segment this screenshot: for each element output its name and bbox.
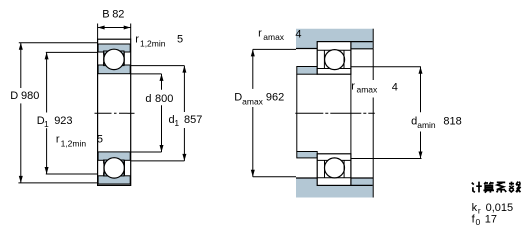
d extension line top [131,73,162,75]
d arrow up [160,74,164,81]
shaft left face [296,74,298,151]
d arrow down [160,145,164,152]
shaft right face [372,49,374,80]
svg-text:5: 5 [97,134,103,146]
bearing outline rect [98,39,131,185]
Damax dimension line [252,49,254,89]
inner ring top band (blue) [98,63,130,74]
D arrow up [19,43,23,50]
inner ring line bottom [317,159,351,161]
svg-text:980: 980 [21,90,39,102]
svg-text:4: 4 [295,28,301,40]
shaft shoulder strip bottom (blue) [297,152,317,158]
svg-text:4: 4 [392,81,398,93]
glyph shu [509,182,521,193]
damin extension bottom [351,158,422,160]
D extension line bottom [18,182,97,184]
ball bottom right drawing [325,158,345,178]
race shoulder ticks top [103,52,105,65]
inner ring outer edge line top [317,68,351,70]
damin extension top [351,66,421,68]
ticks top right drawing [323,50,325,68]
centerline right drawing [295,112,375,114]
Damax extension bottom [253,176,296,178]
d1 extension line bottom [131,160,185,162]
outer ring bottom band (blue) [98,173,130,184]
bearing top section rect [317,42,351,75]
D1 dimension line [46,52,48,112]
glyph suan [483,182,494,193]
D extension line top [19,42,98,44]
bearing top edge extended right [351,41,373,43]
Damax extension top / ra leader [253,48,296,50]
svg-text:D: D [10,90,18,102]
outer ring line bottom [317,177,351,179]
svg-text:800: 800 [155,93,173,105]
damin dimension line [420,67,422,113]
glyph xi [497,182,507,192]
B dimension line [98,27,131,29]
svg-text:818: 818 [443,116,461,128]
d extension line bottom [131,151,162,153]
ball bottom [104,158,124,178]
svg-text:0,015: 0,015 [486,202,514,214]
damin arrow up [419,67,423,74]
D1 extension line top [46,51,98,53]
bearing bottom section rect [317,154,351,186]
svg-text:B: B [102,9,109,21]
D1 arrow up [45,52,49,59]
ball top right drawing [325,50,345,70]
centerline left drawing [95,112,135,114]
Damax arrow up [251,49,255,56]
svg-text:5: 5 [177,34,183,46]
B extension lines [97,24,99,40]
svg-text:82: 82 [112,9,124,21]
svg-text:d: d [145,93,151,105]
D1 arrow down [45,167,49,174]
B arrow right [124,26,131,30]
svg-text:857: 857 [184,114,202,126]
housing block top (blue) [296,29,373,49]
housing block bottom borders [296,177,317,179]
B arrow left [98,26,105,30]
shaft shoulder strip top (blue) [297,67,317,75]
svg-text:17: 17 [485,214,497,226]
damin arrow down [419,152,423,159]
bearing bottom edge extended right [351,184,373,186]
label calc coefficients (CJK hand strokes) [472,182,521,193]
d1 extension line top [131,65,185,67]
ticks bottom right drawing [324,160,326,177]
D arrow down [19,176,23,183]
Damax arrow down [251,170,255,177]
shaft seat step line [350,74,352,154]
outer ring inner edge line top [317,49,351,51]
D dimension line [20,43,22,88]
svg-text:923: 923 [54,115,72,127]
d dimension line [161,74,163,90]
d1 arrow down [182,154,186,161]
housing block bottom (blue) [296,178,373,198]
race shoulder ticks bottom [103,160,105,175]
housing block top borders [296,48,317,50]
inner ring bottom band (blue) [98,152,130,163]
d1 dimension line [183,66,185,112]
d1 arrow up [182,66,186,73]
outer ring top band (blue) [98,44,130,54]
ball top [104,49,124,69]
svg-text:962: 962 [266,92,284,104]
glyph ji [472,182,482,193]
D1 extension line bottom [46,173,98,175]
